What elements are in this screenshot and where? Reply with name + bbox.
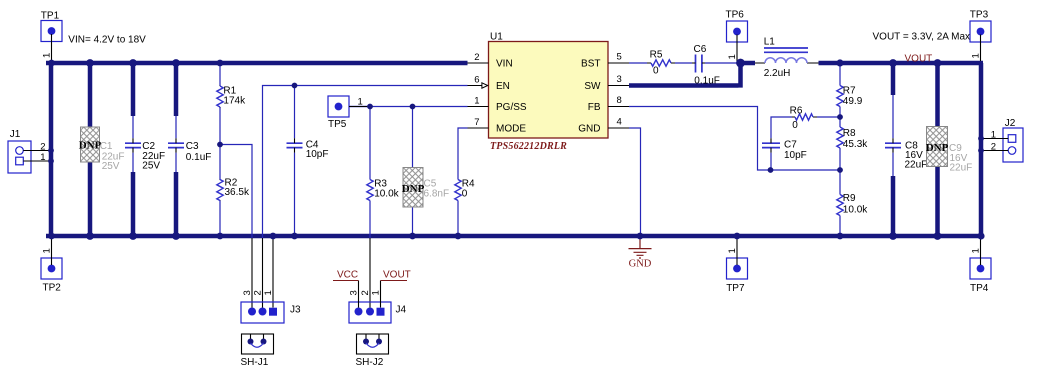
junction C1/VIN rail [86, 59, 94, 67]
svg-text:TP7: TP7 [726, 283, 745, 294]
svg-text:VCC: VCC [337, 270, 358, 281]
svg-text:36.5k: 36.5k [225, 187, 250, 198]
svg-text:BST: BST [581, 59, 600, 70]
svg-text:10pF: 10pF [784, 150, 807, 161]
svg-text:R8: R8 [843, 128, 856, 139]
svg-text:0: 0 [462, 188, 468, 199]
wire R6 C7 feedforward [771, 117, 840, 170]
svg-text:10.0k: 10.0k [374, 188, 399, 199]
svg-text:TP6: TP6 [726, 10, 745, 21]
svg-text:22uF: 22uF [905, 159, 928, 170]
svg-text:R6: R6 [790, 105, 803, 116]
svg-text:PG/SS: PG/SS [496, 102, 527, 113]
svg-text:EN: EN [496, 81, 510, 92]
junction SW/BST/TP6 [736, 59, 745, 68]
junction C2/VIN rail [129, 59, 137, 67]
svg-text:TP4: TP4 [970, 283, 989, 294]
test point TP1 [41, 21, 62, 42]
svg-text:5: 5 [617, 52, 622, 63]
svg-text:TP1: TP1 [41, 11, 60, 22]
svg-text:1: 1 [40, 152, 45, 163]
svg-text:45.3k: 45.3k [843, 139, 868, 150]
net label VCC [333, 280, 359, 282]
wire R7 branch [839, 63, 841, 117]
svg-text:VIN= 4.2V to 18V: VIN= 4.2V to 18V [68, 34, 146, 45]
wire C2 lower stub [131, 172, 136, 238]
svg-text:SW: SW [584, 81, 601, 92]
junction TP2/GND rail [48, 233, 55, 240]
svg-text:C7: C7 [784, 140, 797, 151]
svg-text:MODE: MODE [496, 124, 526, 135]
shunt SH-J2 [357, 334, 389, 354]
svg-text:7: 7 [474, 117, 479, 128]
wire GND bottom rail [46, 234, 983, 239]
junction C9/VOUT rail [934, 59, 942, 67]
svg-text:174k: 174k [223, 95, 246, 106]
wire R9 branch [839, 170, 841, 236]
wire VOUT top rail [819, 61, 984, 66]
svg-text:4: 4 [617, 117, 622, 128]
resistor R4 [455, 180, 461, 201]
svg-text:1: 1 [971, 53, 982, 58]
svg-text:0: 0 [653, 66, 659, 77]
svg-text:2.2uH: 2.2uH [764, 68, 791, 79]
svg-text:1: 1 [371, 290, 382, 295]
svg-text:10pF: 10pF [306, 149, 329, 160]
resistor R8 [837, 127, 843, 148]
wire C9 lower stub [935, 167, 940, 239]
svg-text:1: 1 [991, 130, 996, 141]
test point TP6 [727, 21, 748, 42]
junction C8/VOUT rail [889, 59, 897, 67]
svg-text:GND: GND [578, 124, 600, 135]
junction C4/GND rail [291, 233, 298, 240]
wire J4 pin1 to VOUT stub [380, 281, 382, 308]
svg-text:49.9: 49.9 [843, 96, 863, 107]
wire R1 R2 divider branch [219, 63, 221, 236]
wire TP5 to junction [349, 106, 370, 108]
svg-text:TP2: TP2 [43, 283, 62, 294]
wire VIN top rail [46, 61, 468, 66]
svg-text:2: 2 [360, 290, 371, 295]
svg-text:1: 1 [42, 53, 53, 58]
shunt SH-J1 [242, 334, 274, 354]
svg-text:1: 1 [727, 248, 738, 253]
svg-text:C3: C3 [186, 141, 199, 152]
svg-text:R9: R9 [843, 193, 856, 204]
junction R1/VIN rail [217, 60, 224, 67]
capacitor C7 [762, 143, 780, 147]
svg-text:DNP: DNP [79, 140, 102, 152]
svg-text:0.1uF: 0.1uF [186, 152, 212, 163]
ground GND symbol [629, 238, 652, 258]
svg-text:GND: GND [629, 259, 652, 270]
wire C4 branch [294, 86, 296, 237]
wire divider node to J3 pin 3 [220, 145, 252, 239]
junction C4/EN net [292, 83, 298, 89]
wire C1 upper stub [88, 61, 93, 127]
svg-text:1: 1 [263, 290, 274, 295]
wire C3 thin segments [175, 116, 177, 172]
svg-text:DNP: DNP [402, 183, 425, 195]
test point TP4 [970, 258, 991, 279]
resistor R7 [837, 86, 843, 107]
svg-text:VOUT = 3.3V, 2A Max: VOUT = 3.3V, 2A Max [873, 31, 971, 42]
junction R8/R9/FB node [837, 167, 843, 173]
junction J1 pin2 [48, 148, 54, 154]
svg-text:22uF: 22uF [950, 163, 973, 174]
svg-text:J2: J2 [1005, 118, 1016, 129]
svg-text:1: 1 [358, 97, 363, 108]
wire BST net [629, 62, 738, 64]
svg-text:FB: FB [588, 102, 601, 113]
svg-text:TP3: TP3 [970, 9, 989, 20]
test point TP3 [970, 21, 991, 42]
wire C2 thin segments [132, 116, 134, 172]
junction R2/GND rail [217, 233, 224, 240]
svg-text:3: 3 [242, 290, 253, 295]
svg-text:U1: U1 [490, 32, 503, 43]
svg-text:1: 1 [474, 96, 479, 107]
svg-text:L1: L1 [764, 37, 776, 48]
junction R9/GND rail [837, 233, 844, 240]
wire EN net to J3 pin 2 [263, 86, 468, 239]
svg-text:2: 2 [253, 290, 264, 295]
connector J2 [1003, 128, 1023, 162]
wire C5 branch [412, 107, 414, 237]
svg-text:0.1uF: 0.1uF [694, 76, 720, 87]
wire MODE net to R4 [458, 128, 468, 236]
junction C3/GND rail [172, 232, 180, 240]
test point TP2 [41, 258, 62, 279]
capacitor C6 [696, 55, 702, 73]
junction J1 pin1 [48, 158, 54, 164]
svg-text:3: 3 [617, 74, 622, 85]
svg-text:VOUT: VOUT [905, 53, 933, 64]
junction TP1/VIN rail [48, 60, 55, 67]
wire U1 GND pin to rail [629, 128, 641, 236]
junction R4/GND rail [455, 233, 462, 240]
wire C8 upper stub [891, 61, 896, 95]
wire C8 thin segments [892, 95, 894, 176]
svg-text:1: 1 [727, 54, 738, 59]
junction C9/GND rail [934, 232, 942, 240]
capacitor C8 [885, 143, 901, 147]
junction C7/FB net [768, 167, 774, 173]
svg-text:VOUT: VOUT [383, 270, 411, 281]
svg-text:1: 1 [971, 248, 982, 253]
wire J4 pin3 to VCC stub [358, 281, 360, 308]
connector J4 [349, 302, 391, 323]
test point TP7 [727, 258, 748, 279]
resistor R6 [792, 116, 817, 118]
svg-text:J1: J1 [10, 129, 21, 140]
svg-text:2: 2 [991, 142, 996, 153]
wire VIN left vertical bus [49, 61, 54, 236]
svg-text:1: 1 [42, 248, 53, 253]
capacitor C4 [287, 143, 303, 147]
inductor L1 [755, 62, 819, 64]
resistor R1 [219, 86, 221, 108]
svg-text:SH-J1: SH-J1 [241, 357, 269, 368]
svg-text:TPS562212DRLR: TPS562212DRLR [490, 141, 567, 152]
svg-text:C6: C6 [694, 44, 707, 55]
junction TP4/GND rail [977, 232, 984, 239]
svg-text:TP5: TP5 [328, 119, 347, 130]
capacitor C2 [125, 143, 141, 147]
junction J2 pin1 [978, 136, 984, 142]
junction C3/VIN rail [172, 59, 180, 67]
junction R7/R8/R6 node [837, 114, 843, 120]
wire FB net [629, 107, 840, 171]
wire SW thick net [629, 63, 755, 88]
svg-text:J4: J4 [396, 305, 407, 316]
wire C8 lower stub [891, 176, 896, 238]
junction R7/VOUT rail [836, 59, 843, 66]
wire J3 pin 1 to GND rail [272, 238, 274, 308]
resistor R3 [367, 180, 373, 201]
net label VOUT at J4 [381, 280, 408, 282]
junction U1 GND/rail [637, 233, 644, 240]
svg-text:8: 8 [617, 95, 622, 106]
junction J3 pin1/GND rail [270, 233, 277, 240]
wire R3 branch to J4 pin 2 [369, 107, 371, 239]
resistor R9 [837, 195, 843, 216]
svg-text:3: 3 [349, 290, 360, 295]
svg-text:25V: 25V [102, 161, 120, 172]
capacitor C5 (DNP) [403, 168, 423, 208]
wire PG/SS net [349, 106, 468, 108]
junction C5/PGSS net [410, 104, 416, 110]
wire C2 upper stub [131, 61, 136, 116]
junction C2/GND rail [129, 232, 137, 240]
resistor R2 [219, 180, 221, 201]
svg-text:25V: 25V [142, 161, 160, 172]
connector J3 [241, 302, 284, 323]
junction R3/PGSS net [367, 104, 373, 110]
junction C5/GND rail [409, 233, 416, 240]
op-amp U1 TPS562212DRLR converter IC [489, 42, 609, 139]
svg-text:6.8nF: 6.8nF [424, 188, 450, 199]
junction J2 pin2 [978, 148, 984, 154]
capacitor C3 [168, 143, 184, 147]
junction C1/GND rail [86, 232, 94, 240]
capacitor C9 (DNP) [927, 127, 948, 167]
connector J1 [8, 141, 31, 173]
svg-text:R7: R7 [843, 86, 856, 97]
junction R1/R2 node [217, 142, 223, 148]
junction C8/GND rail [889, 232, 897, 240]
test point TP5 [328, 96, 349, 117]
svg-text:J3: J3 [290, 305, 301, 316]
svg-text:DNP: DNP [926, 142, 949, 154]
junction TP7/GND rail [734, 233, 741, 240]
svg-text:2: 2 [474, 52, 479, 63]
svg-text:R5: R5 [650, 50, 663, 61]
svg-text:SH-J2: SH-J2 [356, 357, 384, 368]
svg-text:6: 6 [474, 75, 479, 86]
svg-text:0: 0 [792, 120, 798, 131]
wire C3 lower stub [174, 172, 179, 238]
svg-text:2: 2 [40, 142, 45, 153]
wire R8 branch [839, 117, 841, 170]
wire C3 upper stub [174, 61, 179, 116]
capacitor C1 (DNP) [81, 127, 100, 162]
svg-text:10.0k: 10.0k [843, 205, 868, 216]
resistor R5 [647, 62, 675, 64]
wire C1 lower stub [88, 162, 93, 238]
wire VOUT right vertical bus [979, 63, 984, 238]
wire C9 upper stub [935, 61, 940, 127]
svg-text:VIN: VIN [496, 59, 513, 70]
